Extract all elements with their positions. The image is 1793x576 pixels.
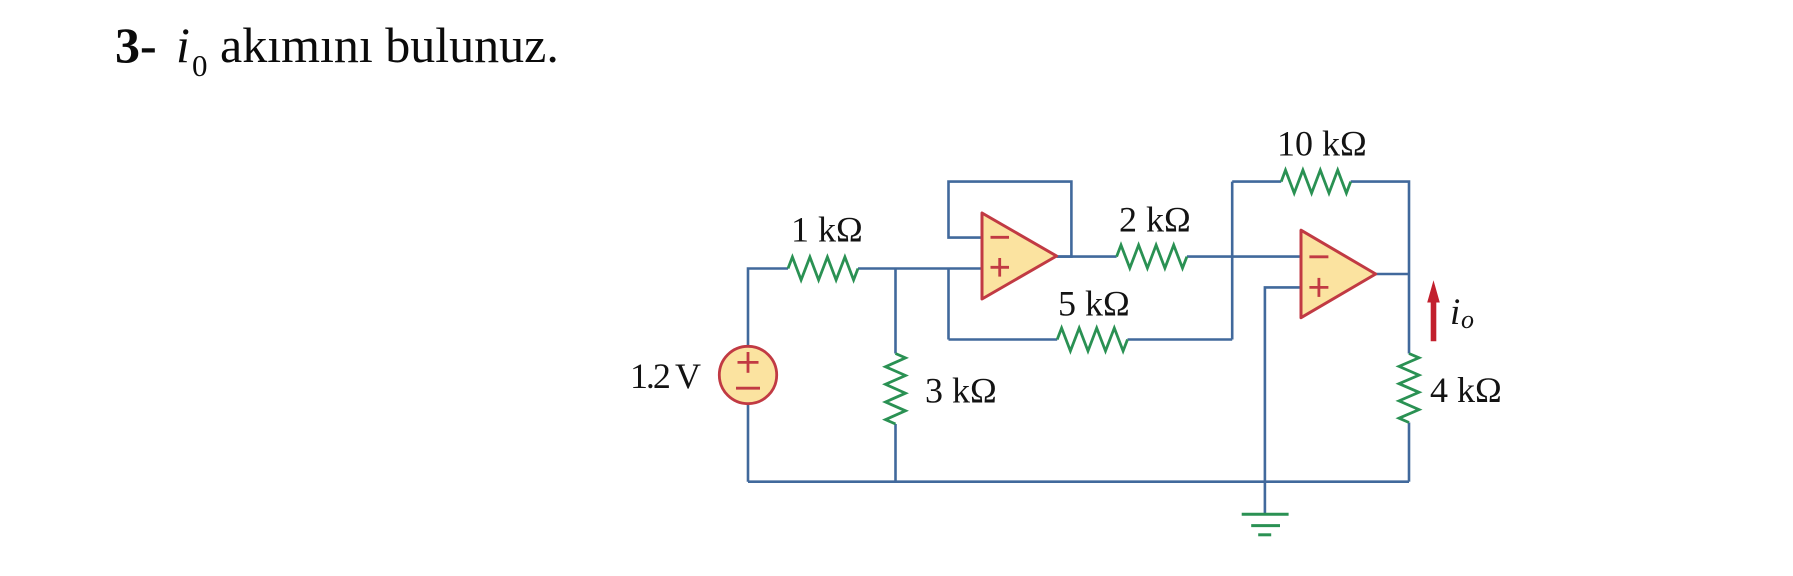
node B: vertical node line joining 10k, 2k, 5k — [1231, 182, 1234, 340]
svg-text:2 kΩ: 2 kΩ — [1119, 200, 1191, 240]
svg-text:i: i — [176, 17, 190, 73]
resistor R3 3 kOhm — [886, 354, 906, 425]
wire: 10k right to U2 output vertical — [1351, 182, 1409, 274]
svg-text:10 kΩ: 10 kΩ — [1277, 124, 1367, 164]
svg-text:4 kΩ: 4 kΩ — [1430, 370, 1502, 410]
voltage source V1 1.2 V — [719, 346, 776, 403]
resistor R6 10 kOhm — [1281, 170, 1351, 193]
wire: 5k line right segment to node B — [1128, 338, 1233, 341]
wire: U2 output — [1376, 273, 1409, 276]
svg-text:0: 0 — [192, 48, 208, 83]
wire: from 1k right end to U1 plus input — [858, 267, 982, 270]
svg-text:1 kΩ: 1 kΩ — [791, 210, 863, 250]
wire: vertical from main node down to 5k line — [947, 269, 950, 340]
ground — [1242, 514, 1289, 535]
wire: U1 feedback loop output to minus input — [949, 182, 1072, 257]
wire: 5k line left segment — [949, 338, 1058, 341]
svg-text:akımını bulunuz.: akımını bulunuz. — [220, 17, 559, 73]
title: 3- i0 akimini bulunuz. — [115, 17, 559, 83]
label i_o — [1450, 292, 1474, 334]
wire: 10k line left segment — [1232, 180, 1281, 183]
op-amp U1 — [982, 213, 1057, 299]
resistor R4 4 kOhm — [1399, 354, 1419, 423]
wire: U1 output to 2k — [1057, 255, 1117, 258]
wire: bottom rail — [748, 480, 1409, 483]
resistor R5 5 kOhm — [1057, 328, 1127, 351]
wire: 3k branch top — [894, 269, 897, 354]
svg-text:i: i — [1450, 292, 1460, 333]
svg-text:3 kΩ: 3 kΩ — [925, 371, 997, 411]
wire: 3k branch bottom — [894, 424, 897, 482]
wire: U2 output down to 4k — [1408, 274, 1411, 354]
svg-text:o: o — [1461, 305, 1474, 334]
resistor R1 1 kOhm — [788, 257, 858, 280]
svg-text:3-: 3- — [115, 17, 157, 73]
op-amp U2 — [1301, 230, 1376, 318]
wire: main top-left node line from source top to op-amp U1 + input — [748, 269, 788, 347]
wire: 2k right to U2 minus input — [1187, 255, 1301, 258]
svg-text:5 kΩ: 5 kΩ — [1058, 284, 1130, 324]
wire: source bottom to bottom rail — [747, 404, 750, 482]
current arrow i_o — [1427, 280, 1440, 341]
svg-text:1.2 V: 1.2 V — [630, 356, 701, 396]
wire: U2 plus input to ground — [1265, 287, 1301, 514]
resistor R2 2 kOhm — [1117, 245, 1187, 268]
wire: 4k bottom to bottom rail — [1408, 423, 1411, 482]
